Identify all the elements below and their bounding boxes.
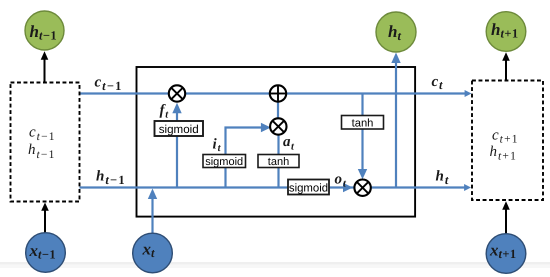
svg-text:sigmoid: sigmoid [289,182,328,194]
wire i_t vertical+horizontal [226,128,263,188]
wire h_t riser [395,62,397,188]
arrowhead h_t into right box [464,184,471,191]
arrow right box to h_t+1 circle [505,60,507,80]
arrow x_t-1 to left box [44,210,46,233]
wire x_t arrow [151,198,153,234]
multiply gate f_t [169,85,185,101]
arrowhead x_t up [148,189,157,200]
svg-text:tanh: tanh [352,117,374,129]
left dashed box [11,83,80,202]
wire c line [80,92,467,94]
node h_t circle [376,12,416,52]
sigmoid box o [288,180,329,195]
arrowhead o_t into multiply [343,183,353,192]
arrowhead i_t right [261,123,271,132]
arrowhead tanh down [358,169,367,179]
cell box (LSTM cell) [137,67,416,217]
wire f_t vertical [176,113,178,188]
svg-text:sigmoid: sigmoid [205,156,243,168]
tanh box output [342,116,384,130]
arrowhead c_t into right box [465,90,472,97]
wire a_t vertical [277,133,279,188]
svg-text:tanh: tanh [268,156,289,168]
node x_t-1 circle [26,233,66,273]
node x_t circle [133,233,173,273]
node h_t-1 circle [25,11,64,50]
svg-text:sigmoid: sigmoid [159,123,199,136]
wire h line [80,186,467,188]
faint artifact line [0,262,550,265]
node h_t+1 circle [486,12,526,52]
arrow left box to h_t-1 circle [44,59,46,82]
wire tanh output vertical [361,94,363,171]
arrow x_t+1 to right box [505,209,507,234]
multiply gate o_t [354,180,370,196]
arrowhead h_t riser up [391,53,400,64]
sigmoid box i [203,155,246,169]
tanh box a [258,155,299,169]
arrowhead f_t up [172,103,181,114]
wire a_t to plus [277,101,279,120]
sigmoid box f [155,121,204,136]
multiply gate a_t [270,118,286,134]
add gate [270,85,286,101]
right dashed box [472,81,543,201]
node x_t+1 circle [486,234,526,274]
